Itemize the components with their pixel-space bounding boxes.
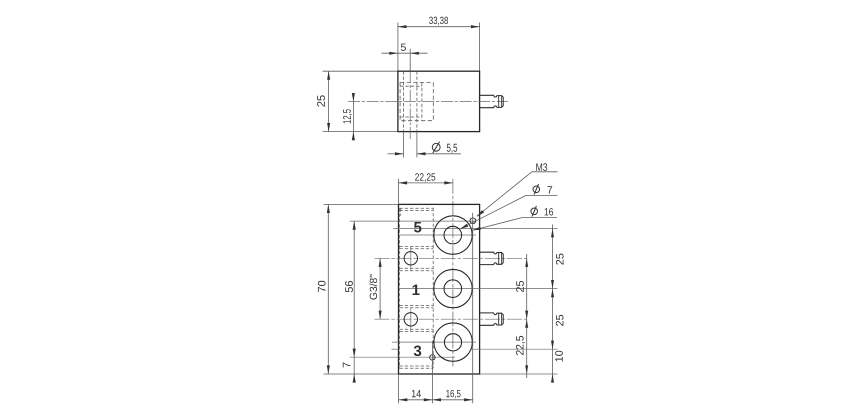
hidden slot line 12	[399, 367, 433, 369]
top view: hidden cavity inner line lower	[400, 116, 422, 118]
front view: block outline	[399, 204, 480, 374]
port 1 outer circle	[434, 269, 472, 307]
bottom edge extension right	[480, 373, 558, 375]
dim 25 inner arrow top	[525, 258, 528, 267]
top view: hidden cavity inner line upper	[400, 85, 422, 87]
top view: left extension top	[323, 70, 398, 72]
dimension text 25	[317, 95, 325, 106]
dimension diam 5,5 line right	[417, 153, 461, 155]
hidden slot line 2	[399, 210, 433, 212]
dimension diam 5,5 line left	[388, 153, 404, 155]
dimension 70 arrow top	[327, 204, 330, 213]
dimension text 14	[412, 390, 421, 397]
front view: fitting upper	[480, 252, 504, 264]
label diam 7 leader arrow	[460, 224, 468, 229]
dimension 22,25 arrow left	[399, 181, 408, 184]
dimension symbol diam 5,5	[432, 143, 440, 151]
hidden slot line 9	[399, 328, 433, 330]
label diam 16 leader	[473, 218, 522, 231]
hidden slot line 1	[399, 207, 433, 209]
side port circle G3/8 upper	[404, 252, 417, 265]
dimension 70 arrow bottom	[327, 365, 330, 374]
top view: fitting	[480, 95, 504, 107]
side port row 1 centerline	[375, 257, 528, 259]
label diam 7 text	[547, 186, 552, 193]
dimension 14 arrow left	[399, 398, 408, 401]
dimension 5 arrow right	[410, 52, 419, 55]
dimension 7 arrow	[353, 374, 356, 383]
port 3 outer circle	[434, 323, 472, 361]
dim inner arrows middle	[525, 311, 528, 320]
dimension text 5,5	[447, 144, 457, 153]
hole centerline extension	[409, 49, 411, 71]
dimension 33,38 arrow left	[398, 25, 407, 28]
dimension text 25 inner	[516, 281, 524, 292]
label diam 16 underline	[523, 217, 558, 219]
port 3 counterbore	[444, 334, 461, 351]
label diam 7 symbol	[533, 186, 540, 193]
port number 3	[414, 346, 421, 357]
lower reference tick left	[392, 348, 398, 350]
dimension 12,5 arrow top	[352, 93, 355, 102]
hole extension below left	[403, 132, 405, 158]
through hole hidden line right	[416, 71, 418, 131]
dimension 12,5 arrow bottom	[352, 132, 355, 141]
M3 hole centerline lower	[350, 356, 455, 358]
through hole hidden line left	[403, 71, 405, 131]
label diam 7 underline	[526, 194, 558, 196]
M3 hole bottom	[430, 355, 435, 360]
dimension 56 arrow bottom	[353, 349, 356, 358]
top view: block outline	[398, 71, 480, 131]
dimension 70 line	[327, 204, 329, 374]
extension line bottom M3	[431, 341, 433, 403]
front view: top extension left	[398, 179, 400, 205]
top view: horizontal centerline	[348, 101, 508, 103]
dimension 12,5 line	[352, 95, 354, 141]
label M3	[536, 163, 547, 171]
label diam 7 leader	[461, 195, 526, 228]
left extension bottom edge	[324, 373, 399, 375]
side port circle G3/8 lower	[404, 313, 417, 326]
dimension 16,5 arrow left	[432, 398, 441, 401]
dimension text 33,38	[429, 17, 448, 26]
dimension G3/8 arrow top	[379, 258, 382, 267]
outer dimension line right	[552, 225, 554, 379]
dim outer arrows middle	[551, 280, 554, 289]
dimension text 25 outer lower	[556, 315, 564, 326]
dimension text 70	[318, 281, 326, 292]
dimension text 7	[343, 362, 351, 367]
hole vertical centerline	[409, 71, 411, 140]
extension line bottom left	[398, 374, 400, 403]
dimension 56 line	[353, 221, 355, 357]
top view: hidden cavity inner vertical	[421, 83, 423, 121]
dim 22,5 arrow bottom	[525, 365, 528, 374]
hidden slot vertical top	[400, 208, 402, 216]
hidden slot vertical left	[398, 208, 400, 368]
dimension 14 arrow right	[424, 398, 433, 401]
upper reference line	[393, 228, 558, 230]
port 1 centerline	[400, 288, 558, 290]
hidden slot line 7	[399, 304, 433, 306]
label M3 leader arrow	[476, 210, 484, 217]
dimension diam 5,5 arrow left	[395, 152, 404, 155]
dimension 33,38 arrow right	[471, 25, 480, 28]
small circle 1 vertical centerline	[410, 247, 412, 271]
dim 10 arrow bottom	[551, 374, 554, 383]
dimension text 22,5	[516, 336, 525, 355]
dimension 25 line	[328, 71, 330, 131]
dimension line bottom	[399, 399, 473, 401]
inner dimension line right	[526, 254, 528, 378]
dimension text 22,25	[415, 173, 435, 182]
hidden slot line 3	[399, 245, 433, 247]
M3 hole top	[470, 218, 476, 224]
top view: extension line left	[397, 23, 399, 72]
lower reference line	[470, 348, 557, 350]
dimension 22,25 line	[399, 182, 453, 184]
small circle 2 vertical centerline	[410, 308, 412, 332]
dim outer arrow lower	[551, 341, 554, 350]
dimension text 56	[345, 281, 353, 292]
hole extension below right	[416, 132, 418, 158]
dimension text 16,5	[446, 390, 460, 399]
port 3 centerline	[392, 341, 476, 343]
dim 25 outer arrow top	[551, 229, 554, 238]
front view: fitting lower	[480, 313, 504, 325]
side port row 2 centerline	[375, 318, 528, 320]
dimension 16,5 arrow right	[464, 398, 473, 401]
top view: hidden cavity rect	[400, 83, 433, 121]
dimension G3/8 line	[379, 258, 381, 319]
port 1 counterbore	[444, 280, 462, 298]
label M3 leader	[477, 172, 532, 217]
hidden slot vertical right	[432, 208, 434, 369]
top view: left extension bottom	[323, 131, 398, 133]
dimension 25 arrow bottom	[327, 123, 330, 132]
hidden slot line 6	[399, 270, 433, 272]
port 5 counterbore	[444, 226, 462, 244]
dimension diam 5,5 arrow right	[417, 152, 426, 155]
port vertical centerline	[452, 179, 454, 367]
port 5 centerline	[400, 234, 476, 236]
dimension 5 arrow left	[389, 52, 398, 55]
label diam 16 symbol	[531, 208, 538, 215]
dimension text 12,5	[343, 109, 352, 123]
left extension top edge	[324, 203, 399, 205]
dimension 22,25 arrow right	[444, 181, 453, 184]
M3 hole centerline upper	[350, 220, 476, 222]
extension line bottom right	[472, 213, 474, 404]
dimension 7 line	[353, 357, 355, 381]
dimension 33,38 line	[398, 26, 480, 28]
dimension text G3/8	[369, 275, 377, 300]
hidden slot line 4	[399, 248, 433, 250]
dimension 5 line	[382, 52, 428, 54]
top view: extension line right	[479, 23, 481, 72]
port 5 outer circle	[434, 216, 472, 254]
label diam 16 text	[545, 208, 553, 215]
port number 1	[413, 285, 420, 295]
hidden slot line 11	[399, 365, 433, 367]
hidden slot line 5	[399, 267, 433, 269]
label M3 underline	[532, 171, 558, 173]
dimension 25 arrow top	[327, 71, 330, 80]
dimension text 5	[401, 44, 406, 51]
label diam 16 leader arrow	[472, 227, 481, 231]
port number 5	[414, 222, 421, 232]
dimension 56 arrow top	[353, 221, 356, 230]
hidden slot line 10	[399, 331, 433, 333]
dimension G3/8 arrow bottom	[379, 311, 382, 320]
hidden slot line 8	[399, 307, 433, 309]
dimension text 10	[555, 351, 563, 362]
dimension text 25 outer upper	[556, 254, 564, 265]
